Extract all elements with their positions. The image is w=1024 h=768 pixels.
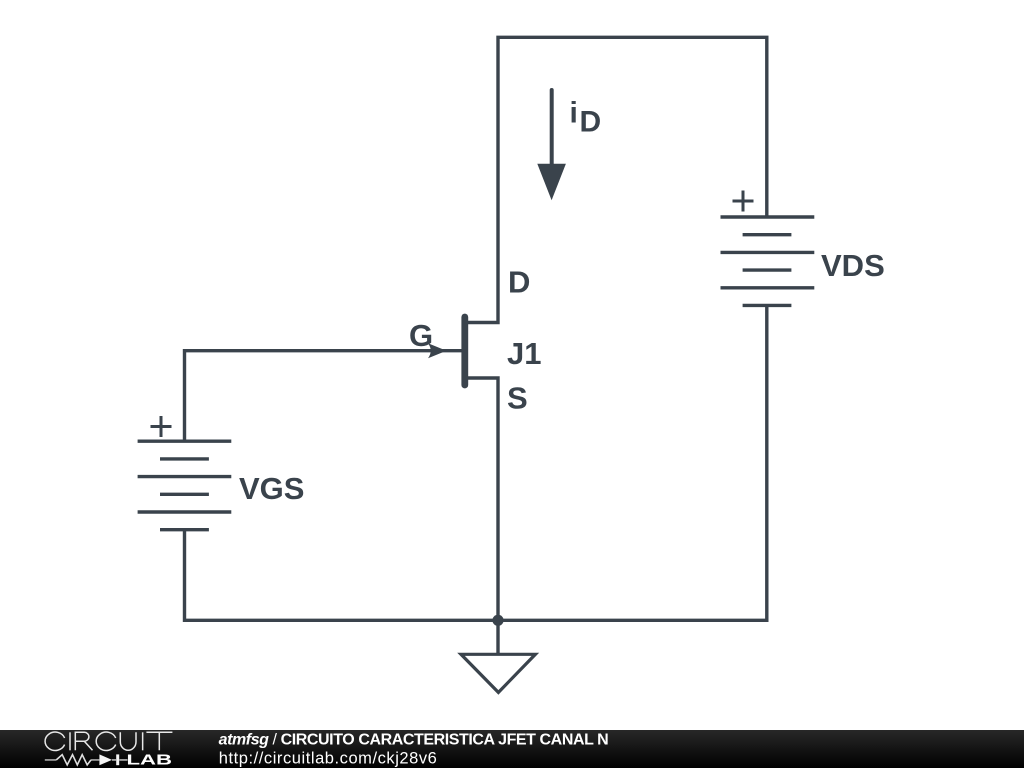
- svg-text:G: G: [409, 318, 433, 353]
- plus sign VGS: [151, 416, 172, 437]
- wire bottom rail: [185, 305, 767, 620]
- logo CIRCUIT wordmark: [45, 732, 172, 750]
- svg-text:atmfsg / CIRCUITO CARACTERISTI: atmfsg / CIRCUITO CARACTERISTICA JFET CA…: [219, 732, 609, 749]
- logo diode triangle: [99, 754, 112, 765]
- svg-text:LAB: LAB: [127, 751, 173, 768]
- wire drain: JFET drain stub up across top to right rail: [465, 37, 767, 322]
- logo wire to LAB: [112, 759, 128, 761]
- logo resistor lead wires: [45, 759, 100, 761]
- transistor J1 (n-channel JFET): gate bar + gate arrowhead: [428, 317, 465, 385]
- logo diode bar: [116, 754, 119, 765]
- ground: [461, 620, 535, 692]
- wire source: JFET source stub down to bottom rail: [465, 378, 498, 620]
- node junction: [492, 615, 503, 626]
- svg-text:D: D: [508, 265, 530, 300]
- plus sign VDS: [733, 191, 754, 212]
- svg-text:D: D: [580, 105, 602, 138]
- svg-text:i: i: [570, 96, 578, 129]
- battery V-GS: [138, 441, 232, 530]
- current arrow iD: [550, 90, 554, 168]
- wire gate: from left rail to JFET gate bar: [185, 351, 462, 442]
- svg-text:S: S: [507, 381, 528, 416]
- svg-text:J1: J1: [507, 336, 541, 371]
- svg-text:VDS: VDS: [821, 248, 885, 283]
- svg-text:http://circuitlab.com/ckj28v6: http://circuitlab.com/ckj28v6: [219, 749, 438, 767]
- svg-text:VGS: VGS: [239, 471, 304, 506]
- logo resistor zigzag: [56, 755, 91, 765]
- battery V-DS: [721, 217, 815, 305]
